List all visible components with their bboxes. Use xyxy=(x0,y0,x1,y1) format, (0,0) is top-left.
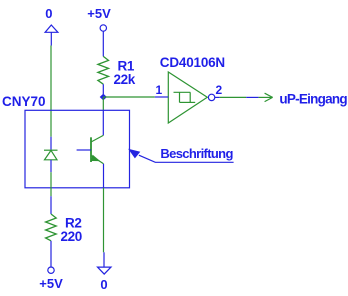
inversion bubble xyxy=(208,94,214,100)
resistor R1 xyxy=(98,56,109,94)
port arrow uP-Eingang xyxy=(259,93,273,101)
wire junction to gate pin xyxy=(103,96,155,98)
terminal +5V (top) xyxy=(100,25,106,57)
LED D1 of CNY70 xyxy=(44,137,58,173)
svg-text:+5V: +5V xyxy=(87,6,111,21)
wire LED cathode to R2 xyxy=(50,172,52,196)
svg-text:0: 0 xyxy=(100,277,107,292)
pin 1 xyxy=(155,96,169,98)
pin of port arrow xyxy=(246,96,258,98)
svg-text:220: 220 xyxy=(61,229,82,244)
pin 2 xyxy=(215,96,220,98)
svg-text:22k: 22k xyxy=(114,72,136,87)
terminal +5V (bottom) xyxy=(48,267,54,273)
wire junction down to optocoupler xyxy=(102,97,104,110)
svg-text:1: 1 xyxy=(156,83,163,97)
ground symbol 0 (bottom) xyxy=(98,252,112,274)
supply symbol 0 (top left) xyxy=(45,25,58,46)
phototransistor of CNY70 xyxy=(77,110,104,188)
resistor R2 xyxy=(46,196,57,267)
svg-text:uP-Eingang: uP-Eingang xyxy=(279,91,347,106)
annotation arrow (Beschriftung) xyxy=(128,149,140,159)
wire left vertical net xyxy=(50,46,52,137)
wire gate output xyxy=(220,96,247,98)
svg-text:Beschriftung: Beschriftung xyxy=(160,146,233,161)
svg-text:+5V: +5V xyxy=(39,276,63,291)
svg-text:2: 2 xyxy=(216,83,223,97)
wire emitter to ground xyxy=(103,188,105,253)
svg-text:0: 0 xyxy=(45,6,52,21)
node junction xyxy=(100,94,107,101)
svg-text:CNY70: CNY70 xyxy=(2,94,46,109)
schmitt-trigger inverter U1 CD40106N xyxy=(168,72,207,123)
svg-text:CD40106N: CD40106N xyxy=(160,55,225,70)
optocoupler CNY70 box xyxy=(25,110,130,188)
annotation leader line xyxy=(139,155,234,162)
